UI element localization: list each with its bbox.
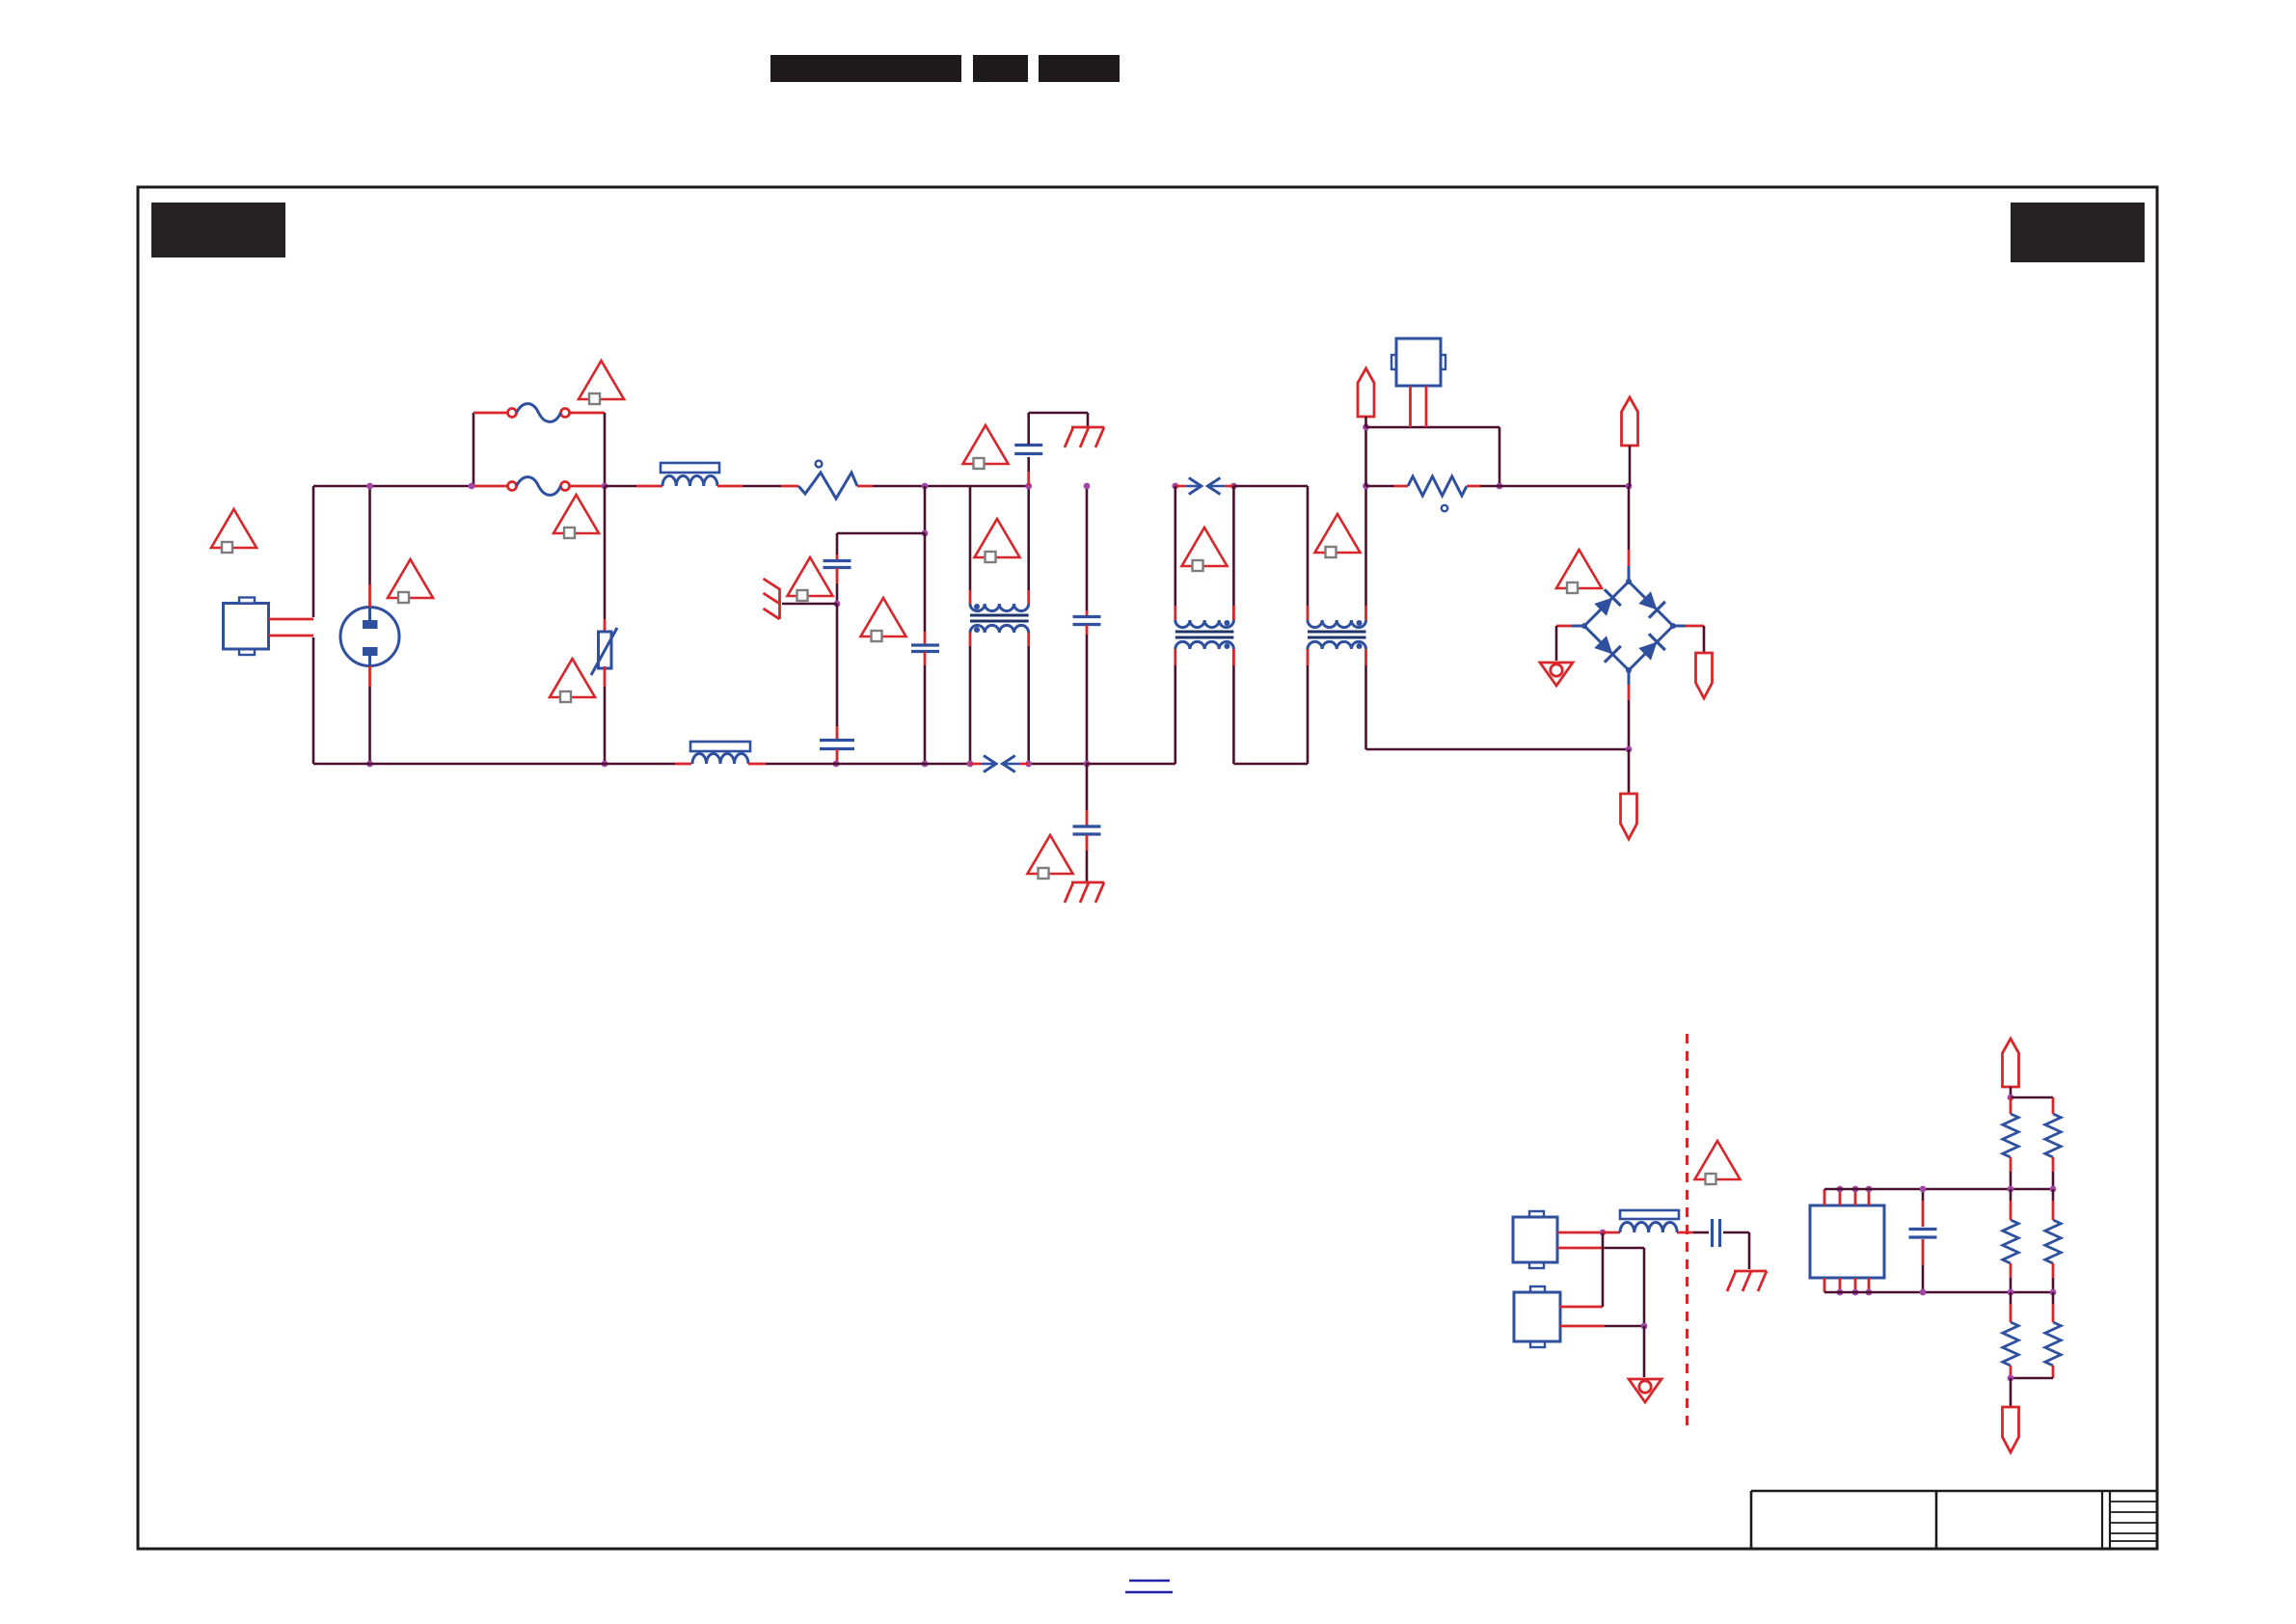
flag net VCC up <box>2003 1039 2019 1087</box>
junction res bottom <box>2008 1375 2014 1382</box>
wire bridge plus <box>1673 625 1686 628</box>
wire F2 left stub <box>472 485 507 488</box>
warning triangle above L3 <box>1182 528 1228 566</box>
connector P1 AC plug <box>224 604 269 650</box>
junction bus2 left res <box>2008 1289 2014 1296</box>
wire TH1 pin1 <box>1409 386 1412 427</box>
wire Rb bottom <box>2052 1157 2055 1172</box>
wire bottom rail segment B <box>748 763 766 766</box>
wire C7 to chassis gnd <box>1086 835 1089 851</box>
wire Ra bottom <box>2010 1157 2012 1172</box>
junction bus left res <box>2008 1186 2014 1193</box>
warning triangle near C7 <box>1028 835 1073 874</box>
wire C3 to bottom rail <box>836 749 839 762</box>
wire L5 to C8 <box>1677 1232 1693 1234</box>
wire branch x959 lower <box>924 533 927 632</box>
resistor R1 <box>1408 476 1467 496</box>
junction node B <box>1497 483 1503 490</box>
wire top bus <box>1824 1188 2053 1191</box>
wire switch right down <box>1499 427 1501 486</box>
flag net AC_L <box>1358 368 1374 417</box>
wire top rail segment A <box>313 485 477 488</box>
flag net GND down <box>2003 1407 2019 1452</box>
warning triangle left of C5 <box>963 425 1009 464</box>
warning triangle near C4 <box>861 598 906 636</box>
junction CN2 node <box>1641 1323 1648 1330</box>
wire bridge bottom lead <box>1628 670 1631 685</box>
junction res top <box>2008 1095 2014 1101</box>
wire Ra top stub <box>2010 1097 2012 1114</box>
connector TH1 thermal switch <box>1396 338 1441 386</box>
warning triangle below F2 <box>554 495 599 533</box>
junction top rail / socket <box>366 483 373 490</box>
wire fuse loop right <box>570 412 606 415</box>
flag net VIN <box>1622 397 1638 446</box>
wire Y-node down to C3 <box>836 604 839 726</box>
chassis ground comb <box>778 588 781 619</box>
wire C5 lower lead <box>1027 472 1030 486</box>
wire CN node to L5 <box>1603 1232 1620 1234</box>
junction CN node <box>1600 1230 1607 1236</box>
spark gap SG2 <box>1175 485 1186 488</box>
warning triangle T1 input <box>211 509 257 548</box>
wire Rd top <box>2052 1189 2055 1201</box>
capacitor C8 series <box>1711 1219 1714 1247</box>
junction bottom rail / socket <box>366 761 373 768</box>
wire bridge top lead <box>1628 486 1631 550</box>
wire CN1 pin1 <box>1557 1232 1603 1234</box>
bridge rectifier D1 <box>1584 582 1629 626</box>
junction U1 pin dots top <box>1837 1186 1844 1193</box>
wire L4 to node A <box>1364 427 1367 486</box>
wire res top link <box>2011 1096 2053 1099</box>
resistor R5 <box>2045 1220 2061 1263</box>
wire left rail up <box>312 486 315 617</box>
resistor R6 <box>2003 1322 2018 1366</box>
wire varistor top <box>604 486 607 619</box>
wire R1 right <box>1467 485 1480 488</box>
wire CN2 pin2 <box>1560 1325 1605 1328</box>
chassis ground bottom <box>1071 881 1104 884</box>
wire choke L3 bottom right <box>1232 649 1235 665</box>
wire bridge minus <box>1572 625 1584 628</box>
wire Re top <box>2010 1292 2012 1304</box>
capacitor C9 <box>1909 1228 1937 1231</box>
wire C4 to bottom rail <box>924 652 927 665</box>
wire to flag GND <box>2010 1378 2012 1407</box>
wire socket bottom lead <box>368 666 371 688</box>
warning triangle near F1 <box>579 361 624 399</box>
wire bottom rail segment A <box>313 763 675 766</box>
resistor R7 <box>2045 1322 2061 1366</box>
junction mid node <box>922 530 929 537</box>
wire P1 pin1 <box>269 618 314 621</box>
wire F2 right stub <box>570 485 606 488</box>
wire cap C2 to junction <box>836 568 839 583</box>
wire top rail into choke L2 <box>969 486 972 590</box>
wire bottom rail segment C <box>1029 763 1086 766</box>
junction bottom rail / C4 <box>922 761 929 768</box>
junction top rail / SG2 right <box>1230 483 1237 490</box>
wire choke L4 top right <box>1364 606 1367 620</box>
warning triangle T2 near socket <box>388 559 433 598</box>
wire bottom rail L3-L4 span <box>1233 763 1308 766</box>
wire choke L2 bottom left <box>969 633 972 646</box>
wire choke L4 bottom left <box>1307 649 1310 665</box>
junction dc return <box>1626 746 1633 753</box>
chassis ground top <box>1071 426 1104 429</box>
junction C9 bottom <box>1920 1289 1927 1296</box>
wire node B to bridge <box>1499 485 1629 488</box>
wire bottom rail L3 span <box>1086 763 1175 766</box>
junction top rail / SG2 left <box>1172 483 1178 490</box>
resistor R4 <box>2003 1220 2018 1263</box>
resistor R3 <box>2045 1114 2061 1157</box>
wire choke L2 top right <box>1027 590 1030 604</box>
socket J1 AC inlet <box>340 608 399 666</box>
wire P1 pin2 <box>269 635 314 637</box>
wire bottom bus <box>1824 1291 2053 1294</box>
wire fuse loop left <box>473 413 475 486</box>
isolation boundary dashed line <box>1686 1034 1688 1427</box>
spark gap SG1 <box>970 763 981 766</box>
varistor RV1 <box>599 632 612 668</box>
wire C6 to bottom rail <box>1086 625 1089 635</box>
warning triangle above L2 <box>975 519 1020 557</box>
wire Rf bottom <box>2052 1366 2055 1378</box>
wire choke L3 bottom left <box>1174 649 1176 665</box>
wire below-rail branch <box>1086 764 1089 810</box>
capacitor C3 <box>820 739 854 742</box>
junction U1 pin dots bottom <box>1837 1289 1844 1296</box>
common-mode choke L3 <box>1175 620 1234 628</box>
capacitor C7 <box>1073 825 1101 827</box>
inductor L1 <box>661 463 719 473</box>
wire left rail down <box>312 637 315 764</box>
warning triangle above L4 <box>1315 514 1361 553</box>
wire R1 left <box>1366 485 1395 488</box>
junction node A <box>1363 424 1369 431</box>
wire node A to switch <box>1366 426 1500 429</box>
wire Re bottom <box>2010 1366 2012 1378</box>
common-mode choke L2 <box>970 604 1029 611</box>
fuse F2 <box>508 482 517 491</box>
connector CN1 <box>1513 1217 1557 1262</box>
junction bottom rail / C3 <box>833 761 840 768</box>
junction top rail / L4 <box>1363 483 1369 490</box>
IC U1 <box>1810 1205 1884 1278</box>
wire Rf top <box>2052 1292 2055 1304</box>
ground signal lower <box>1629 1379 1661 1402</box>
wire top rail segment D <box>857 485 873 488</box>
junction C9 top <box>1920 1186 1927 1193</box>
capacitor C5 <box>1014 452 1042 455</box>
wire CN2 pin1 <box>1560 1306 1603 1309</box>
wire to signal ground <box>1643 1326 1646 1377</box>
wire branch x1127 <box>1086 486 1089 610</box>
junction bus2 right res <box>2050 1289 2057 1296</box>
fuse F1 <box>508 409 517 418</box>
wire dc return rail <box>1366 748 1630 751</box>
ground bridge minus <box>1540 663 1573 686</box>
flag net V+ down <box>1696 653 1713 698</box>
wire choke L2 bottom right <box>1027 633 1030 646</box>
wire Rc top <box>2010 1189 2012 1201</box>
warning triangle near D1 <box>1556 550 1602 588</box>
wire C8 to chassis <box>1723 1232 1749 1234</box>
junction top rail / L2 / C5 <box>1025 483 1032 490</box>
thermistor RT1 <box>798 473 857 499</box>
junction fuse right <box>602 483 608 490</box>
wire U1 top pins <box>1823 1189 1826 1205</box>
connector CN2 <box>1514 1292 1560 1341</box>
wire choke L4 bottom right <box>1364 649 1367 665</box>
wire C9 branch <box>1922 1189 1925 1201</box>
junction bottom rail / x1127 <box>1084 761 1091 768</box>
junction top rail / cap branch <box>922 483 929 490</box>
flag net AC_N down <box>1621 794 1637 839</box>
junction Y-node <box>834 601 841 608</box>
junction bottom rail / varistor <box>602 761 608 768</box>
junction top rail / x1127 <box>1084 483 1091 490</box>
chassis ground lower right <box>1734 1270 1767 1273</box>
junction bottom rail / L2 right <box>1025 761 1032 768</box>
wire choke L3 top right <box>1232 606 1235 620</box>
wire top rail segment C <box>717 485 743 488</box>
wire Rd bottom <box>2052 1263 2055 1278</box>
wire top rail segment B <box>605 485 636 488</box>
wire C5 to chassis gnd <box>1027 413 1030 445</box>
wire U1 bottom pins <box>1823 1278 1826 1292</box>
wire Y-node to chassis <box>782 603 837 606</box>
junction bottom rail / L2 left <box>967 761 974 768</box>
capacitor C2 <box>824 559 851 562</box>
wire branch x959 upper <box>924 486 927 533</box>
wire mid node to cap C2 <box>837 532 925 535</box>
wire choke L4 top left <box>1307 486 1310 606</box>
capacitor C6 <box>1073 615 1101 618</box>
warning triangle near RV1 <box>550 659 595 697</box>
junction fuse left <box>469 483 475 490</box>
wire Rc bottom <box>2010 1263 2012 1278</box>
junction node C <box>1626 483 1633 490</box>
wire top rail over choke L2 <box>970 485 1029 488</box>
inductor L6 <box>690 742 750 751</box>
wire socket top lead <box>368 584 371 608</box>
capacitor C4 <box>911 643 939 646</box>
wire varistor bottom <box>604 666 607 687</box>
wire to flag ACN <box>1628 749 1631 794</box>
common-mode choke L4 <box>1308 620 1366 628</box>
wire top rail segment E <box>1233 485 1308 488</box>
inductor L5 <box>1620 1210 1679 1219</box>
wire CN1 pin2 <box>1557 1247 1605 1250</box>
wire choke L3 top left <box>1175 486 1177 606</box>
junction bus right res <box>2050 1186 2057 1193</box>
warning triangle near comb gnd <box>788 557 833 596</box>
wire TH1 pin2 <box>1425 386 1428 427</box>
resistor R2 <box>2003 1114 2018 1157</box>
warning triangle lower <box>1695 1141 1741 1179</box>
